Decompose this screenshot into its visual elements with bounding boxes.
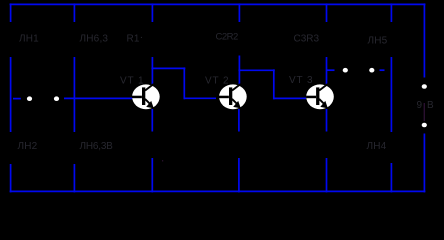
wire rail4 top stub [238, 3, 240, 22]
wire switch SA2 right lead [380, 69, 385, 71]
wire switch SA1 left lead [13, 98, 21, 100]
svg-text:В: В [427, 100, 434, 111]
switch SA2 post 2 [369, 68, 374, 73]
wire rail7 battery top [423, 3, 425, 77]
transistor VT2 [219, 84, 247, 109]
wire top bus [10, 3, 426, 5]
wire switch SA1 right lead to base of VT1 [64, 97, 133, 99]
svg-text:ЛН6,3В: ЛН6,3В [80, 141, 114, 152]
svg-text:R1: R1 [127, 34, 140, 45]
wire coupling C1 vertical [183, 67, 185, 99]
wire rail6 mid [390, 57, 392, 132]
wire rail1 top stub [10, 3, 12, 22]
wire rail7 battery bottom [423, 134, 425, 193]
wire rail3 collector VT1 [151, 57, 153, 86]
svg-text:VТ 3: VТ 3 [289, 75, 313, 86]
wire rail1 mid [10, 57, 12, 132]
wire emitter VT3 lower [326, 158, 328, 192]
wire rail2 top stub [73, 3, 75, 22]
wire rail6 top stub [390, 3, 392, 22]
wire coupling C2 to base VT3 [274, 97, 306, 99]
battery GB1 dark body mark [424, 103, 425, 121]
wire emitter VT1 upper [151, 109, 153, 132]
wire rail4 collector VT2 [238, 56, 240, 86]
svg-text:VТ 1: VТ 1 [120, 76, 144, 87]
svg-text:9: 9 [417, 100, 423, 111]
svg-text:С3R3: С3R3 [294, 34, 320, 45]
switch SA1 post 2 [54, 96, 59, 101]
svg-text:ЛН1: ЛН1 [19, 34, 39, 45]
wire rail2 mid [73, 57, 75, 132]
wire emitter VT2 upper [238, 109, 240, 132]
svg-text:ЛН2: ЛН2 [18, 141, 38, 152]
wire coupling C2 vertical [273, 69, 275, 99]
battery GB1 post bottom [422, 123, 427, 128]
wire coupling C2 horizontal from collector VT2 [238, 69, 274, 71]
transistor VT1 [132, 84, 160, 109]
wire rail2 bottom [73, 164, 75, 192]
svg-text:VТ 2: VТ 2 [205, 76, 229, 87]
wire coupling C1 to base VT2 [184, 97, 216, 99]
wire rail5 collector VT3 [326, 57, 328, 86]
svg-text:С2R2: С2R2 [216, 32, 239, 43]
battery GB1 post top [422, 84, 427, 89]
transistor VT3 [306, 84, 334, 109]
wire emitter VT1 lower [151, 158, 153, 192]
wire rail3 top stub [151, 3, 153, 22]
wire coupling C1 horizontal from collector VT1 [151, 67, 185, 69]
switch SA2 post 1 [343, 68, 348, 73]
wire switch SA2 left lead [327, 69, 335, 71]
wire rail5 top stub [326, 3, 328, 22]
wire emitter VT2 lower [238, 158, 240, 192]
svg-text:.: . [140, 30, 143, 41]
wire emitter VT3 upper [326, 109, 328, 132]
svg-text:ЛН6,3: ЛН6,3 [80, 34, 109, 45]
wire rail6 bottom [390, 163, 392, 192]
switch SA1 post 1 [27, 96, 32, 101]
emitter VT1 dark speck [162, 160, 163, 161]
wire bottom bus [10, 190, 426, 192]
svg-text:ЛН5: ЛН5 [368, 36, 388, 47]
wire rail1 bottom [10, 164, 12, 192]
svg-text:ЛН4: ЛН4 [367, 141, 387, 152]
